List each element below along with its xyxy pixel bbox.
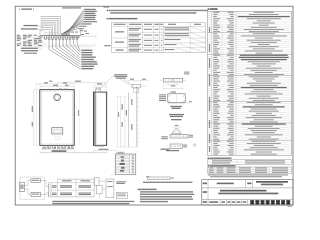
front view: dimension lines above: [37, 81, 108, 90]
title block row2: model: [203, 190, 279, 195]
front view: exhaust circle: [54, 94, 61, 101]
remote controller wiring diagram: [20, 177, 49, 199]
piping detail: long dimension lines to the right: [46, 35, 96, 48]
Rinnai company name (bold): [250, 200, 290, 204]
piping detail: right-side dimension texts: [71, 30, 90, 38]
mount plate drawing: [159, 94, 192, 104]
bullet note A: [208, 158, 232, 160]
side view: bottom stubs and dim: [94, 145, 117, 151]
top view: dimensions below: [163, 82, 183, 93]
dim between front and side views: [78, 91, 80, 146]
side view: outline: [93, 92, 106, 145]
title block: [202, 180, 293, 205]
pipe connection table heading: [107, 18, 138, 20]
pipe cover option drawing: [111, 154, 136, 177]
top notes (2 lines): [107, 10, 208, 14]
title block row1: name: [203, 181, 288, 185]
page border frame: [15, 6, 293, 205]
piping detail: top caption: [62, 7, 109, 9]
piping detail: left dimension text block: [17, 35, 43, 47]
wall section: exhaust adapter detail: [129, 79, 148, 93]
spec table: [208, 11, 292, 155]
mini table A: [208, 160, 292, 164]
piping detail: unit bottom outline with connection stubs: [40, 30, 81, 40]
piping detail: staircase dimension lines: [41, 16, 61, 36]
piping detail: top-right label stack: [78, 9, 97, 29]
anchor bar drawing: [146, 176, 174, 180]
piping detail: lower-right label stack with leader fan: [49, 39, 98, 69]
side view: top flue detail: [95, 87, 101, 92]
drain piping diagram: [94, 177, 127, 198]
front view: control panel: [52, 128, 63, 134]
front view: left vertical dimension: [32, 90, 40, 145]
piping detail: lower-left labels: [21, 42, 47, 54]
front view: top stubs: [59, 88, 67, 89]
wall section: vertical dimension chains: [116, 86, 138, 147]
page corner mark: [288, 206, 293, 207]
front view: bottom connection stubs: [44, 145, 73, 147]
bullet note B: [208, 165, 236, 166]
wall hatching: [137, 88, 140, 145]
piping detail: leader bundle from labels to connections: [62, 10, 85, 36]
drain note block: [138, 189, 194, 203]
spec table heading: [208, 8, 218, 10]
mini table B: [208, 167, 292, 174]
exhaust direction labels: [100, 74, 134, 89]
mount plate captions: [169, 106, 184, 121]
bracket captions: [161, 149, 180, 152]
front view: under-view dimension text: [41, 148, 74, 152]
front view: label plate: [55, 137, 60, 139]
anchor caption line: [143, 182, 193, 183]
bottom notes left: [52, 201, 134, 204]
piping detail: upper-left labels with leaders: [21, 25, 45, 32]
top view: labels top-right: [184, 72, 190, 75]
wall base label box: [117, 152, 125, 154]
front view: outline: [40, 90, 74, 146]
overall width dimension under views: [40, 151, 107, 154]
remote controller table: [48, 179, 94, 197]
small annotation box right of piping labels: [104, 45, 110, 46]
title block row3: date/scale cells: [203, 199, 248, 205]
notes under mini tables: [208, 174, 288, 177]
top view: main bar: [160, 78, 186, 82]
mounting bracket drawing: [161, 125, 196, 148]
side view: top dimension: [94, 83, 107, 92]
pipe connection table: [112, 23, 206, 53]
unit label [unit:mm]: [20, 8, 34, 10]
